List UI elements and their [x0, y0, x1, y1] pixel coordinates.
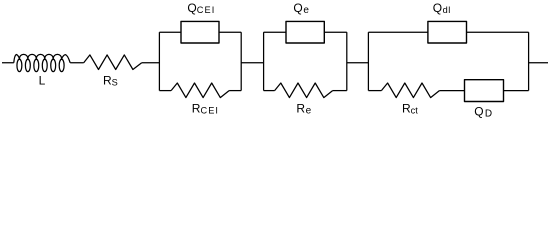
CPE Q_D — [465, 80, 504, 102]
node right of block 2 — [346, 32, 348, 90]
node left of block 1 — [158, 32, 160, 90]
node left of block 2 — [263, 32, 265, 90]
wire — [70, 62, 84, 64]
wire bottom branch 3 middle — [439, 90, 464, 92]
svg-text:Qdl: Qdl — [433, 1, 451, 15]
wire bottom branch 1 left — [159, 90, 171, 92]
node left of block 3 — [367, 32, 369, 90]
wire between block 2 and 3 — [347, 62, 369, 64]
resistor RS — [84, 55, 142, 70]
CPE Q_CEI — [181, 21, 219, 43]
wire bottom branch 2 right — [333, 90, 347, 92]
resistor Re — [275, 83, 333, 98]
svg-text:RS: RS — [103, 74, 118, 88]
svg-text:L: L — [39, 74, 46, 88]
wire top branch 1 right — [219, 31, 241, 33]
wire input — [2, 62, 14, 64]
wire bottom branch 1 right — [229, 90, 241, 92]
svg-text:RCEI: RCEI — [192, 101, 219, 115]
svg-text:Re: Re — [296, 102, 311, 117]
resistor RCEI — [171, 83, 229, 98]
svg-text:Rct: Rct — [402, 102, 418, 116]
wire top branch 2 left — [264, 31, 286, 33]
svg-text:Qe: Qe — [293, 1, 309, 16]
inductor L — [14, 54, 70, 71]
svg-text:QD: QD — [474, 104, 492, 119]
wire top branch 2 right — [324, 31, 347, 33]
wire top branch 3 left — [368, 31, 428, 33]
wire — [142, 62, 160, 64]
resistor Rct — [381, 83, 439, 98]
wire output — [529, 62, 548, 64]
CPE Q_e — [286, 21, 324, 43]
node right of block 1 — [240, 32, 242, 90]
svg-text:QCEI: QCEI — [187, 1, 215, 15]
wire top branch 3 right — [467, 31, 529, 33]
wire bottom branch 2 left — [264, 90, 275, 92]
wire bottom branch 3 left — [368, 90, 381, 92]
node right of block 3 — [528, 32, 530, 90]
wire top branch 1 — [159, 31, 181, 33]
wire between block 1 and 2 — [241, 62, 263, 64]
CPE Q_dl — [428, 21, 467, 43]
wire bottom branch 3 right — [504, 90, 529, 92]
